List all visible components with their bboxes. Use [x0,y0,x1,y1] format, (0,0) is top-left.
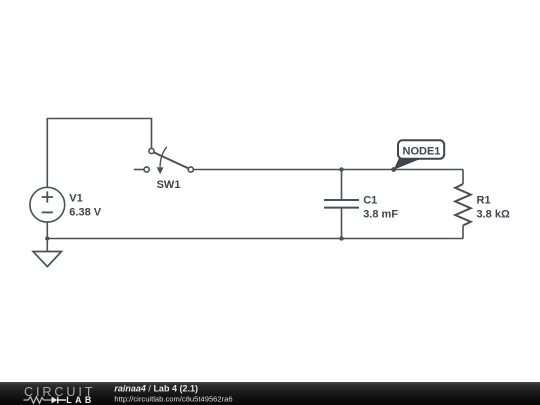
svg-text:rainaa4 / Lab 4 (2.1): rainaa4 / Lab 4 (2.1) [114,384,198,394]
wire: SW1 left no-connect stub [134,169,144,171]
svg-text:6.38 V: 6.38 V [69,207,101,219]
voltage source V1 [30,187,65,222]
junction dot: bottom rail / C1 [339,236,343,240]
svg-text:C1: C1 [363,195,377,207]
ground [33,252,61,267]
svg-text:R1: R1 [477,195,491,207]
switch SW1 [144,147,193,174]
junction dot: bottom rail / V1-ground [45,236,49,240]
svg-text:NODE1: NODE1 [403,146,441,158]
node NODE1 flag tail [394,158,420,170]
resistor R1 [455,170,471,239]
wire: bottom rail [47,238,463,240]
svg-text:SW1: SW1 [157,179,181,191]
svg-text:3.8 kΩ: 3.8 kΩ [477,209,510,221]
wire: top rail from SW1 right terminal to R1 [193,169,463,171]
CircuitLab logo: resistor zigzag [24,397,52,404]
wire: V1 bottom lead to ground [46,222,48,252]
footer bar [0,382,540,405]
junction dot: top rail / C1 [339,167,343,171]
svg-text:LAB: LAB [66,395,94,405]
svg-text:V1: V1 [69,193,82,205]
CircuitLab logo: diode [52,397,58,404]
junction dot: NODE1 attachment [391,167,396,172]
svg-text:3.8 mF: 3.8 mF [363,209,398,221]
svg-text:http://circuitlab.com/c8u5t495: http://circuitlab.com/c8u5t49562ra6 [114,394,232,403]
capacitor C1 [324,170,359,239]
wire: V1 top to SW1 top terminal [47,119,151,189]
node NODE1 flag box [398,140,444,159]
